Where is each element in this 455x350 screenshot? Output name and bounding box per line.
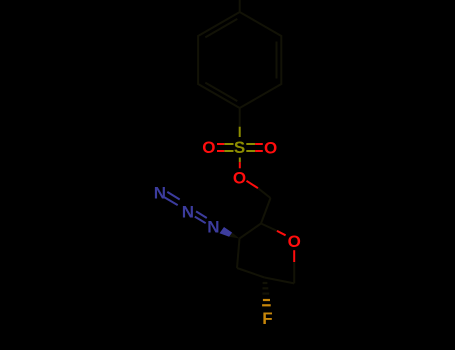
svg-text:N: N <box>154 184 166 203</box>
svg-text:S: S <box>234 138 245 157</box>
bond C6-C5 <box>265 278 295 284</box>
svg-text:N: N <box>207 217 219 236</box>
svg-text:O: O <box>288 232 301 251</box>
benzene ring (toluene) <box>198 12 281 108</box>
double bond S=O left <box>217 144 234 151</box>
bond O1-C6 <box>293 250 295 283</box>
bond O-CH2 <box>247 181 271 198</box>
bond C4-C3 <box>237 239 240 269</box>
svg-text:N: N <box>182 203 194 222</box>
svg-text:O: O <box>202 138 215 157</box>
svg-text:O: O <box>233 168 246 187</box>
methyl stub (clipped at top) <box>239 0 241 12</box>
bond C3-C2 <box>240 224 262 239</box>
double bond N1=N2 <box>165 192 180 205</box>
bond CH2-C2 <box>261 198 271 224</box>
bond C1-S <box>239 108 241 137</box>
bond C2-O1 (ring) <box>261 224 286 236</box>
double bond N2=N3 <box>195 211 207 223</box>
hash wedge bond C5-F <box>262 283 271 305</box>
bond C5-C4 <box>237 268 265 278</box>
bond S-O ester <box>239 158 241 169</box>
svg-text:F: F <box>262 309 272 328</box>
svg-text:O: O <box>264 138 277 157</box>
wedge bond C3-N3 (azide attachment) <box>220 227 240 239</box>
double bond S=O right <box>246 144 262 151</box>
